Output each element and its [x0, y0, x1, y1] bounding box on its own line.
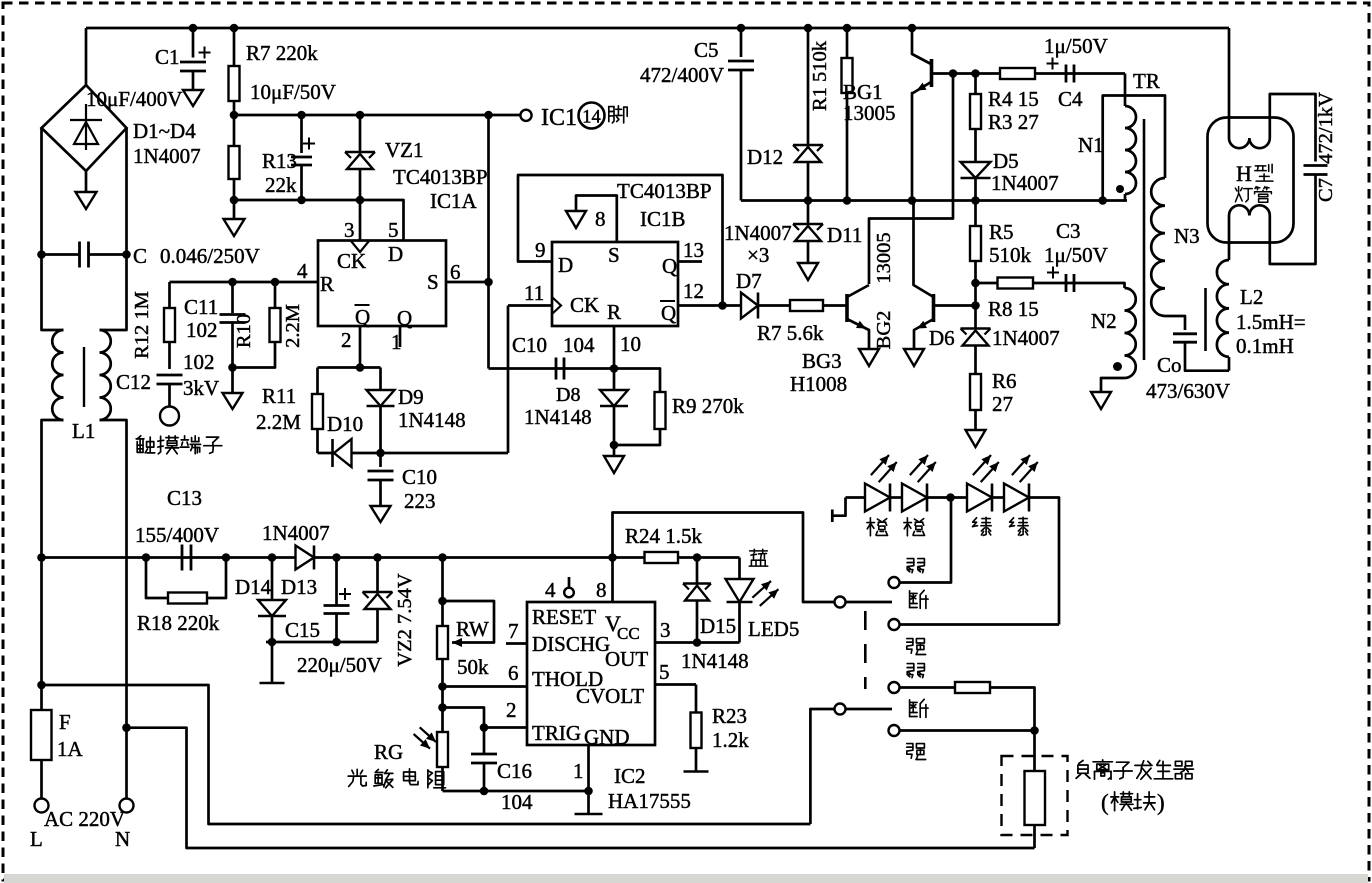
wire N column upper [100, 128, 127, 330]
switch2 weak contact [889, 682, 900, 693]
svg-text:R3 27: R3 27 [988, 110, 1039, 134]
wire TRIG pin2 [484, 726, 527, 729]
wire THOLD pin6 [443, 685, 528, 688]
svg-text:RG: RG [374, 740, 403, 764]
capacitor C15 220u/50V [335, 558, 338, 606]
capacitor C3 1u/50V [1065, 274, 1068, 292]
wire LED right end [1029, 498, 1059, 625]
svg-text:D: D [558, 253, 573, 277]
ground below C10-223 [371, 506, 391, 522]
svg-text:8: 8 [596, 578, 607, 602]
IC1B feedback loop Q1bar to D [518, 175, 723, 306]
capacitor C11 102 [231, 282, 234, 313]
svg-text:R23: R23 [712, 704, 747, 728]
capacitor C7 472/1kV loop [1270, 94, 1316, 162]
switch1 off label [909, 591, 911, 608]
resistor R11 2.2M [316, 368, 319, 454]
inductor L1 right winding [100, 330, 111, 420]
svg-text:10μF/50V: 10μF/50V [250, 80, 336, 104]
capacitor C10 223 [379, 453, 382, 467]
wire LED feed [832, 498, 845, 516]
wire gnd bottom line [443, 790, 589, 793]
potentiometer RW 50k [438, 597, 447, 606]
resistor R10 2.2M [274, 282, 277, 308]
svg-text:104: 104 [563, 333, 595, 357]
svg-text:1N4007: 1N4007 [991, 171, 1059, 195]
diode D13 1N4007 [296, 546, 315, 570]
node LED mid junction [927, 496, 967, 499]
svg-text:1N4007: 1N4007 [724, 221, 792, 245]
svg-text:14: 14 [582, 108, 601, 128]
svg-text:IC1A: IC1A [430, 189, 478, 213]
ground bar below D14 [271, 642, 274, 683]
capacitor C13 155/400V [181, 545, 184, 571]
svg-text:1N4148: 1N4148 [681, 649, 749, 673]
svg-text:GND: GND [584, 725, 630, 749]
svg-text:D: D [388, 242, 403, 266]
wire L column lower [42, 420, 64, 685]
capacitor 10uF/50V electrolytic [300, 115, 303, 153]
polarity dot N2 [1113, 362, 1122, 371]
svg-text:102: 102 [183, 350, 215, 374]
node Q1 lower junction [376, 449, 385, 458]
capacitor C4 1u/50V [1065, 65, 1068, 83]
wire VCC bus y115 [234, 114, 520, 117]
svg-text:): ) [1157, 790, 1165, 815]
IC2 pin3 OUT wire [655, 641, 740, 644]
resistor R1 510k [846, 28, 849, 201]
svg-text:22k: 22k [265, 173, 297, 197]
svg-text:N3: N3 [1174, 224, 1200, 248]
svg-text:13005: 13005 [843, 101, 896, 125]
zener VZ1 [359, 115, 362, 152]
diode D15 1N4148 [696, 558, 699, 584]
switch1 weak contact [889, 577, 900, 588]
svg-text:R: R [320, 272, 334, 296]
svg-text:(: ( [1101, 790, 1109, 815]
transistor BG3 H1008 [845, 294, 849, 322]
svg-text:S: S [608, 243, 620, 267]
resistor R5 510k [974, 201, 977, 227]
svg-text:6: 6 [508, 661, 519, 685]
svg-text:D7: D7 [736, 269, 762, 293]
switch2 strong contact [889, 725, 900, 736]
svg-text:R10: R10 [233, 314, 255, 348]
svg-text:D12: D12 [747, 145, 783, 169]
wire BG1base to BG3 collector [869, 74, 953, 285]
svg-text:3: 3 [660, 618, 671, 642]
svg-text:12: 12 [683, 279, 704, 303]
resistor R9 270k [614, 369, 660, 393]
IC1A clock chevron pin3 [351, 241, 369, 252]
IC1B pin13 stub [678, 260, 702, 263]
svg-text:7: 7 [508, 619, 519, 643]
svg-text:TR: TR [1133, 69, 1160, 93]
winding N3 [1151, 178, 1165, 316]
svg-text:CK: CK [337, 249, 366, 273]
LED color labels [869, 518, 871, 536]
svg-text:R: R [607, 300, 621, 324]
svg-text:IC2: IC2 [614, 764, 646, 788]
ground below C11 [231, 368, 234, 394]
wire ground long link from L [42, 685, 811, 824]
resistor R12 1M [168, 282, 171, 369]
svg-text:6: 6 [450, 260, 461, 284]
svg-text:R12 1M: R12 1M [131, 291, 153, 359]
terminal N [120, 799, 134, 813]
svg-text:R5: R5 [989, 220, 1014, 244]
polarity dot N1 [1116, 185, 1124, 193]
svg-text:D13: D13 [281, 575, 317, 599]
wire VCC loop to switch pole1 [613, 513, 835, 603]
wire Q1-bar pin2 to node [359, 326, 362, 368]
svg-text:R18 220k: R18 220k [137, 611, 220, 635]
svg-text:1N4007: 1N4007 [133, 144, 201, 168]
ground below C1 [183, 90, 203, 106]
svg-text:Q: Q [662, 254, 677, 278]
svg-text:C7: C7 [1315, 178, 1337, 202]
LED green 2 [992, 496, 1004, 499]
capacitor C10 104 [489, 367, 615, 370]
inductor L1 left winding [52, 330, 63, 420]
svg-text:R11: R11 [262, 384, 296, 408]
svg-text:C4: C4 [1058, 87, 1083, 111]
capacitor C1 [192, 28, 195, 58]
svg-text:F: F [59, 710, 71, 734]
svg-text:8: 8 [595, 207, 606, 231]
svg-text:C: C [133, 244, 147, 268]
svg-text:C3: C3 [1056, 219, 1081, 243]
wire TRIG branch [443, 708, 485, 728]
svg-text:1N4007: 1N4007 [992, 326, 1060, 350]
IC1A flip-flop box [318, 241, 446, 327]
svg-text:1A: 1A [57, 737, 84, 761]
svg-text:10μF/400V: 10μF/400V [86, 87, 182, 111]
ion module body [1033, 731, 1036, 772]
svg-text:R7 220k: R7 220k [246, 41, 318, 65]
svg-text:155/400V: 155/400V [135, 523, 219, 547]
svg-text:TRIG: TRIG [532, 721, 581, 745]
svg-text:472/400V: 472/400V [640, 63, 724, 87]
svg-text:R13: R13 [262, 149, 297, 173]
wire R-line y282 [170, 281, 319, 284]
svg-text:0.046/250V: 0.046/250V [160, 244, 260, 268]
label ion generator [1079, 760, 1083, 763]
IC1B pin10 wire [613, 326, 616, 369]
svg-text:220μ/50V: 220μ/50V [297, 653, 382, 677]
IC1B pin8 S ground loop [576, 196, 617, 243]
svg-text:R8 15: R8 15 [988, 297, 1039, 321]
svg-text:9: 9 [535, 238, 546, 262]
svg-text:S: S [427, 270, 439, 294]
svg-text:R1 510k: R1 510k [809, 40, 831, 111]
svg-text:510k: 510k [989, 243, 1032, 267]
svg-text:C13: C13 [167, 486, 202, 510]
L2 core bar [1204, 288, 1207, 351]
svg-text:104: 104 [501, 790, 533, 814]
svg-text:DISCHG: DISCHG [532, 632, 610, 656]
resistor R24 1.5k [645, 552, 679, 563]
ground below R6 [966, 430, 986, 447]
svg-text:R6: R6 [992, 369, 1017, 393]
terminal L [35, 799, 49, 813]
svg-text:D15: D15 [700, 614, 736, 638]
wire C4 to N1 [1124, 74, 1127, 107]
wire N column lower [100, 420, 127, 799]
transistor BG1 13005 [908, 24, 917, 33]
svg-text:2: 2 [506, 698, 517, 722]
ground below R13 [233, 200, 236, 219]
svg-text:H1008: H1008 [790, 372, 847, 396]
svg-text:1N4148: 1N4148 [524, 405, 592, 429]
ground below BG3 [859, 349, 879, 366]
svg-text:×3: ×3 [747, 243, 769, 267]
svg-text:R9 270k: R9 270k [672, 394, 744, 418]
svg-text:Co: Co [1157, 353, 1182, 377]
IC2 ground pin1 [587, 745, 590, 814]
svg-text:2.2M: 2.2M [256, 410, 301, 434]
switch1 pole [835, 597, 846, 608]
IC2 pin5 wire [655, 683, 696, 686]
LED green 1 [967, 484, 992, 512]
resistor R7 220k [233, 28, 236, 115]
IC1A pin1 stub [399, 326, 402, 347]
svg-text:H: H [1236, 161, 1252, 186]
resistor R4 15 [1000, 68, 1035, 79]
diode D9 1N4148 [379, 368, 382, 454]
wire CK pin3 feed [359, 200, 362, 241]
resistor R18 220k [146, 558, 168, 599]
inductor L1 core [83, 347, 85, 407]
wire L column upper [42, 128, 64, 330]
svg-text:D9: D9 [398, 385, 424, 409]
ground below BG2 [904, 349, 924, 366]
wire RW column [441, 558, 444, 627]
svg-text:TC4013BP: TC4013BP [617, 179, 712, 203]
transistor BG2 13005 [932, 294, 936, 322]
svg-text:LED5: LED5 [748, 617, 799, 641]
svg-text:OUT: OUT [605, 647, 648, 671]
diode D5 1N4007 [961, 162, 991, 178]
wire top rail [86, 27, 1229, 30]
diode D10 [318, 452, 509, 455]
transformer core [1143, 119, 1146, 360]
capacitor Co 473/630V [1165, 316, 1185, 330]
wire IC1 vcc column x488 [487, 115, 490, 369]
svg-text:L: L [30, 827, 43, 851]
svg-text:5: 5 [388, 218, 399, 242]
wire lamp feed from rail [1228, 28, 1231, 138]
svg-text:1: 1 [573, 759, 584, 783]
svg-text:1μ/50V: 1μ/50V [1044, 34, 1108, 58]
svg-text:VZ1: VZ1 [385, 138, 424, 162]
svg-text:D11: D11 [827, 223, 862, 247]
IC2 pin4 RESET terminal [568, 577, 571, 588]
zener VZ2 7.54V [376, 558, 379, 593]
node pin10 R junction [610, 364, 619, 373]
svg-text:D10: D10 [327, 412, 363, 436]
LED orange 1 [846, 496, 866, 499]
svg-text:1N4148: 1N4148 [398, 408, 466, 432]
svg-text:D6: D6 [929, 326, 955, 350]
svg-text:1μ/50V: 1μ/50V [1044, 243, 1108, 267]
IC1B pin11 wire [508, 304, 552, 307]
photoresistor RG [437, 732, 448, 767]
svg-text:VZ2 7.54V: VZ2 7.54V [394, 573, 416, 667]
resistor R13 22k [233, 115, 236, 200]
svg-text:RESET: RESET [532, 605, 596, 629]
switch2 pole [835, 704, 846, 715]
bridge inner diode glyph [85, 104, 87, 150]
svg-text:C10: C10 [512, 333, 547, 357]
winding N1 [1125, 106, 1136, 194]
svg-text:D5: D5 [993, 149, 1019, 173]
svg-text:13: 13 [683, 238, 704, 262]
svg-text:C11: C11 [184, 295, 218, 319]
svg-text:C10: C10 [402, 465, 437, 489]
svg-text:D1~D4: D1~D4 [133, 119, 196, 143]
wire BG2 base [934, 304, 976, 307]
svg-text:473/630V: 473/630V [1146, 379, 1230, 403]
svg-text:CC: CC [617, 624, 640, 643]
svg-text:472/1kV: 472/1kV [1315, 92, 1337, 164]
svg-text:13005: 13005 [873, 232, 895, 283]
wire BG1 base line [932, 72, 1126, 75]
svg-text:C1: C1 [155, 45, 180, 69]
svg-text:CVOLT: CVOLT [576, 684, 644, 708]
diode D11 1N4007 [807, 201, 810, 225]
svg-text:D8: D8 [556, 384, 580, 406]
svg-text:4: 4 [297, 259, 308, 283]
ground below D8 [613, 445, 616, 456]
wire N return line B [127, 728, 1035, 848]
svg-text:C12: C12 [116, 370, 151, 394]
wire bus to N3 top [1103, 96, 1165, 201]
resistor R8 15 [976, 282, 998, 285]
svg-text:1.2k: 1.2k [712, 728, 749, 752]
diode D6 1N4007 [961, 327, 991, 330]
LED emission arrows [871, 455, 889, 475]
LED5 blue [738, 558, 741, 580]
capacitor C5 472/400V [740, 28, 743, 57]
capacitor C12 [157, 374, 183, 377]
wire low-voltage rail y557 [42, 556, 296, 559]
ground below bridge [85, 171, 88, 192]
lamp top filament [1229, 138, 1270, 148]
svg-text:TC4013BP: TC4013BP [393, 165, 488, 189]
svg-text:3kV: 3kV [183, 376, 219, 400]
terminal IC1 pin14 [520, 110, 531, 121]
inductor L2 [1228, 216, 1231, 261]
diode D7 [718, 301, 727, 310]
LED orange 2 [890, 496, 902, 499]
winding N2 [1125, 288, 1136, 378]
wire emitter bus y200 [741, 199, 1127, 202]
svg-text:2: 2 [341, 328, 352, 352]
svg-text:BG2: BG2 [873, 311, 895, 350]
svg-text:Q: Q [355, 305, 370, 329]
wire minus rail y642 [266, 641, 378, 644]
lamp H-tube outline [1208, 118, 1294, 243]
IC1A pin6 wire [446, 281, 489, 284]
svg-text:0.1mH: 0.1mH [1236, 334, 1294, 358]
svg-text:102: 102 [186, 318, 218, 342]
svg-text:D14: D14 [235, 575, 272, 599]
svg-text:3: 3 [344, 218, 355, 242]
wire D-rail y200 [234, 200, 404, 241]
ground below D11 [798, 263, 818, 280]
footer gray bar [4, 874, 1368, 883]
svg-text:11: 11 [524, 281, 544, 305]
svg-text:C5: C5 [694, 38, 719, 62]
svg-text:223: 223 [404, 489, 436, 513]
IC2 timer box [527, 602, 655, 745]
IC1B flip-flop box [552, 242, 678, 326]
svg-text:1.5mH=: 1.5mH= [1236, 310, 1306, 334]
svg-text:BG3: BG3 [802, 349, 842, 373]
switch gang dashed link [864, 611, 867, 689]
svg-text:CK: CK [570, 293, 599, 317]
svg-text:L2: L2 [1240, 285, 1263, 309]
svg-text:5: 5 [659, 660, 670, 684]
wire N2 to ground [1101, 378, 1125, 392]
svg-text:C15: C15 [285, 618, 320, 642]
diode D12 [807, 28, 810, 201]
capacitor C16 104 [483, 728, 486, 755]
svg-text:C16: C16 [497, 759, 532, 783]
resistor R23 1.2k [695, 685, 698, 713]
ion module dashed box [1002, 756, 1068, 835]
svg-text:N2: N2 [1091, 309, 1117, 333]
diode D14 [271, 558, 274, 601]
label touch terminal [137, 436, 141, 439]
IC2 pin7 stub [506, 642, 527, 645]
IC1B clock chevron pin11 [552, 297, 561, 314]
svg-text:R7 5.6k: R7 5.6k [757, 321, 824, 345]
wire D10-line riser to CK2 [507, 306, 510, 454]
wire bridge feed [85, 28, 88, 85]
bridge rectifier D1~D4 diamond [42, 85, 127, 171]
resistor R7 5.6k [758, 304, 847, 307]
svg-text:HA17555: HA17555 [608, 789, 691, 813]
svg-text:N1: N1 [1078, 133, 1104, 157]
terminal touch plate [160, 407, 179, 426]
capacitor C 0.046/250V [37, 250, 46, 259]
svg-text:IC1: IC1 [541, 105, 577, 131]
svg-text:4: 4 [545, 578, 556, 602]
svg-text:1N4007: 1N4007 [262, 521, 330, 545]
svg-text:IC1B: IC1B [640, 207, 686, 231]
svg-text:L1: L1 [72, 419, 95, 443]
svg-text:R4 15: R4 15 [988, 87, 1039, 111]
svg-text:50k: 50k [457, 655, 489, 679]
svg-text:Q: Q [661, 301, 676, 325]
resistor R6 27 [970, 374, 981, 410]
resistor ion dropper [955, 682, 990, 693]
svg-text:R24 1.5k: R24 1.5k [625, 524, 703, 548]
lamp bottom filament [1229, 205, 1270, 215]
svg-text:2.2M: 2.2M [282, 304, 304, 348]
IC2 pin8 VCC wire [611, 558, 614, 603]
diode D8 1N4148 [613, 369, 616, 446]
svg-text:AC 220V: AC 220V [44, 807, 125, 831]
svg-text:10: 10 [620, 332, 641, 356]
fuse F 1A [40, 685, 43, 799]
switch1 strong contact [889, 619, 900, 630]
resistor R3 27 [974, 74, 977, 95]
svg-text:27: 27 [992, 392, 1013, 416]
svg-text:RW: RW [456, 617, 489, 641]
